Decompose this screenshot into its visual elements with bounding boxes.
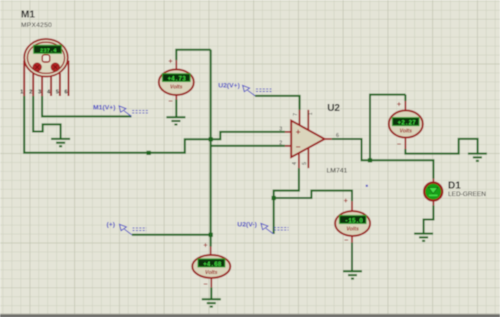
svg-text:−: −	[397, 139, 401, 148]
voltmeter VM4 +4.68	[192, 241, 230, 289]
svg-text:Volts: Volts	[205, 270, 218, 276]
svg-text:5: 5	[302, 162, 308, 165]
U2 pin stubs 3,2,7,1,4,5,6	[285, 110, 332, 168]
ground under VM3	[343, 271, 362, 278]
svg-text:U2: U2	[327, 103, 340, 114]
svg-text:+: +	[168, 56, 172, 65]
svg-text:−: −	[344, 236, 348, 245]
svg-text:Volts: Volts	[400, 129, 413, 135]
wire op-amp output pin6 to LED anode	[332, 139, 434, 179]
svg-text:7: 7	[293, 113, 299, 116]
M1 port square	[42, 55, 50, 62]
wire VM2 plus stub green	[404, 95, 406, 101]
M1 right vent circle	[51, 63, 59, 71]
svg-text:6: 6	[336, 133, 339, 139]
M1 body outer ring	[24, 39, 68, 77]
vm4 body	[192, 255, 230, 278]
node junction output net / VM2	[368, 158, 372, 162]
ground under LED	[414, 234, 433, 241]
svg-text:4: 4	[292, 162, 298, 165]
pressure sensor M1 MPX4250	[20, 9, 68, 96]
wire voltmeter VM1 plus to main vertical	[176, 50, 210, 61]
wire sensor pin3 to terminal M1(V+)	[42, 96, 131, 116]
svg-text:Volts: Volts	[170, 85, 183, 91]
vm3 pin stubs	[351, 201, 353, 242]
vm4 LCD readout +4.68	[198, 259, 225, 267]
D1 pin stubs	[432, 179, 434, 206]
wire pin4 net to VM3 plus	[274, 191, 352, 202]
wire terminal (+) to main vertical	[132, 234, 211, 236]
D1 body circle	[424, 183, 442, 201]
stray blue dot	[366, 185, 368, 187]
wire VM2 plus to output net	[370, 95, 405, 161]
vm3 LCD readout -15.0	[340, 216, 367, 224]
svg-text:+: +	[296, 128, 301, 137]
svg-text:LED-GREEN: LED-GREEN	[448, 191, 486, 198]
svg-text:2: 2	[279, 141, 282, 147]
node junction main vertical / pin3 net	[209, 137, 213, 141]
D1 diode triangle	[429, 188, 438, 194]
svg-text:(+): (+)	[107, 221, 116, 228]
svg-text:3: 3	[38, 90, 41, 96]
svg-text:D1: D1	[448, 181, 461, 192]
svg-text:1: 1	[308, 112, 314, 115]
svg-text:-15.0: -15.0	[345, 217, 364, 224]
ground sensor pin2	[51, 139, 70, 146]
op-amp U2 LM741	[279, 103, 347, 174]
M1 pin stubs 1-6	[24, 61, 68, 97]
wire main vertical node to VM4 plus	[210, 50, 212, 247]
svg-text:+4.73: +4.73	[167, 75, 186, 82]
vm3 body	[335, 211, 370, 236]
M1 body inner ring	[27, 42, 64, 73]
wire op-amp pin4 to terminal U2(V-)	[274, 168, 299, 234]
vm1 pin stubs	[175, 60, 177, 99]
ground right of VM2	[468, 154, 487, 161]
wire VM3 minus to ground	[351, 243, 353, 272]
vm2 pin stubs	[404, 101, 406, 149]
wire VM4 minus to ground	[210, 287, 212, 299]
svg-text:+4.68: +4.68	[203, 261, 222, 268]
LED D1 LED-GREEN	[424, 179, 486, 206]
svg-text:U2(V+): U2(V+)	[218, 83, 240, 90]
wire node to op-amp pin3	[211, 132, 285, 139]
svg-text:3: 3	[279, 127, 282, 133]
M1 LCD readout 237.4	[34, 45, 62, 53]
vm1 body	[159, 69, 194, 95]
svg-text:5: 5	[56, 90, 59, 96]
voltmeter VM1 +4.73	[159, 56, 194, 105]
node junction on pin1 wire	[147, 151, 151, 155]
U2 triangle body	[291, 121, 324, 158]
vm2 LCD readout +2.27	[392, 118, 419, 126]
vm1 LCD readout +4.73	[163, 74, 191, 82]
terminal U2(V+)	[243, 85, 272, 96]
svg-text:2: 2	[29, 90, 32, 96]
svg-text:−: −	[296, 143, 301, 152]
svg-text:M1: M1	[21, 9, 35, 20]
node junction pin4 net	[272, 196, 276, 200]
ground under VM1	[166, 117, 185, 124]
D1 cathode bar	[429, 194, 438, 196]
M1 left vent circle	[33, 63, 41, 71]
wire terminal U2(V+) to op-amp pin7	[255, 96, 300, 110]
ground under VM4	[202, 299, 221, 306]
terminal U2(V-)	[261, 223, 289, 234]
voltmeter VM2 +2.27	[389, 100, 423, 149]
terminal (+)	[119, 224, 146, 235]
wire node to op-amp pin2	[211, 145, 285, 147]
vm4 pin stubs	[210, 247, 213, 288]
M1 pin numbers 1-6	[20, 90, 67, 96]
wire sensor pin2 to ground	[33, 96, 60, 139]
node junction (+) terminal / main vertical	[209, 233, 213, 237]
svg-text:1: 1	[20, 90, 23, 96]
svg-text:MPX4250: MPX4250	[21, 22, 52, 29]
vm2 body	[389, 110, 423, 137]
wire VM1 minus to ground	[175, 100, 177, 118]
svg-text:M1(V+): M1(V+)	[93, 104, 115, 111]
terminal M1(V+)	[119, 106, 149, 117]
svg-text:Volts: Volts	[346, 226, 359, 232]
svg-text:237.4: 237.4	[40, 47, 57, 54]
svg-text:LM741: LM741	[327, 167, 348, 174]
wire VM2 minus to ground right	[405, 139, 477, 154]
svg-text:−: −	[168, 97, 172, 106]
svg-text:+: +	[203, 241, 207, 250]
svg-text:+: +	[344, 196, 348, 205]
svg-text:+: +	[397, 100, 401, 109]
svg-text:6: 6	[64, 90, 67, 96]
wire sensor pin1 to junction node	[24, 96, 211, 153]
svg-text:−: −	[203, 280, 207, 289]
svg-text:U2(V-): U2(V-)	[237, 221, 257, 228]
voltmeter VM3 -15.0	[335, 196, 370, 245]
wire LED cathode to ground	[424, 205, 434, 233]
svg-text:+2.27: +2.27	[398, 120, 417, 127]
